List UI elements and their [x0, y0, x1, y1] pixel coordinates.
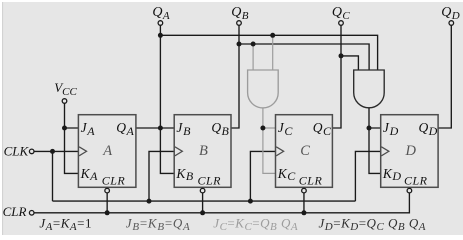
wire CLR drop FF C: [303, 193, 305, 213]
junction CLR bus FF B: [200, 210, 205, 215]
wire CLK riser to FF B: [149, 151, 174, 201]
wire CLK riser to FF D: [355, 151, 380, 201]
terminal QC: [339, 21, 344, 26]
wire QD vertical from terminal: [438, 25, 451, 128]
junction QA at JB: [158, 126, 163, 131]
svg-text:KA: KA: [80, 166, 99, 183]
wire CLK bus horizontal: [53, 200, 356, 202]
junction VCC at JA: [62, 126, 67, 131]
terminal CLK: [29, 149, 34, 154]
wire QC vertical from terminal: [332, 25, 341, 128]
svg-text:KC: KC: [277, 166, 297, 183]
wire CLK riser to FF C: [250, 151, 275, 201]
clock triangle FF D: [381, 147, 389, 156]
wire gate C right input from QA bus: [272, 35, 274, 70]
junction gate C right input tap: [270, 33, 275, 38]
svg-text:CLR: CLR: [102, 174, 126, 188]
terminal VCC: [62, 99, 67, 104]
wire QA top bus to gate D right input: [160, 35, 377, 70]
junction QA bus tap: [158, 33, 163, 38]
clock triangle FF B: [175, 147, 183, 156]
svg-text:D: D: [405, 143, 417, 159]
svg-text:KB: KB: [175, 166, 194, 183]
clock triangle FF C: [276, 147, 284, 156]
svg-text:A: A: [102, 143, 112, 159]
junction CLR bus FF C: [301, 210, 306, 215]
junction gate C left input tap: [251, 42, 256, 47]
terminal QA: [158, 21, 163, 26]
wire QB bus to gate D middle input: [239, 44, 369, 70]
wire QC tap to gate D left input: [341, 56, 358, 70]
CLR bubble FF D: [407, 188, 412, 193]
flip-flop D box: [381, 115, 438, 188]
svg-text:CLR: CLR: [198, 174, 222, 188]
wire gate C output to JC and KC: [263, 108, 276, 173]
flip-flop B box: [174, 115, 231, 188]
CLR bubble FF A: [105, 188, 110, 193]
junction QC tap: [339, 53, 344, 58]
wire CLR bus horizontal: [34, 193, 410, 213]
junction QB bus: [237, 42, 242, 47]
svg-text:B: B: [199, 143, 208, 159]
wire QB vertical from terminal: [231, 25, 239, 128]
CLR bubble FF C: [302, 188, 307, 193]
junction gate C output at JC: [260, 126, 265, 131]
junction gate D output at JD: [367, 126, 372, 131]
wire gate D output to JD and KD: [369, 108, 381, 173]
panel left seam: [2, 2, 4, 235]
svg-text:C: C: [300, 143, 310, 159]
wire CLR drop FF A: [106, 193, 108, 213]
AND gate G2 (black): [354, 70, 385, 108]
wire QA output to JB: [136, 127, 174, 129]
wire VCC feed to JA and KA: [65, 103, 79, 173]
svg-text:CLR: CLR: [3, 204, 27, 219]
wire CLK drop to clock bus: [52, 151, 54, 201]
flip-flop C box: [276, 115, 333, 188]
terminal QB: [237, 21, 242, 26]
junction CLK branch: [50, 149, 55, 154]
svg-text:CLR: CLR: [404, 174, 428, 188]
junction CLR bus FF A: [105, 210, 110, 215]
terminal CLR: [29, 211, 34, 216]
svg-text:CLK: CLK: [4, 143, 30, 158]
flip-flop A box: [78, 115, 135, 188]
junction CLK bus at FF B riser: [147, 199, 152, 204]
svg-text:CLR: CLR: [299, 174, 323, 188]
clock triangle FF A: [79, 147, 87, 156]
AND gate G1 (gray): [248, 70, 279, 108]
CLR bubble FF B: [200, 188, 205, 193]
terminal QD: [449, 21, 454, 26]
wire CLK input horizontal: [34, 150, 79, 152]
wire QA vertical from terminal to KB: [160, 25, 174, 173]
wire gate C left input from QB bus: [252, 44, 254, 70]
svg-text:KD: KD: [382, 166, 402, 183]
wire CLR drop FF B: [202, 193, 204, 213]
junction CLK bus at FF C riser: [248, 199, 253, 204]
